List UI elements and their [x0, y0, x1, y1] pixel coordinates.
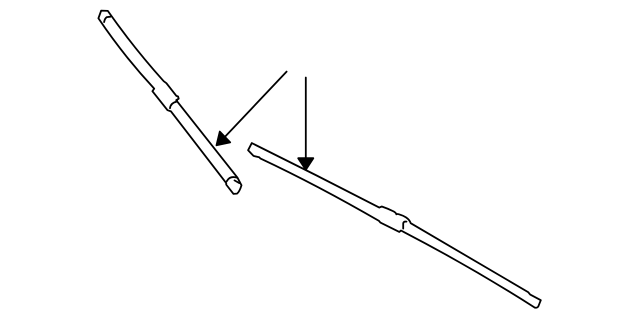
arrow 2 (vertical) line [305, 78, 307, 159]
blade 1 connector arc [170, 100, 177, 108]
arrow 2 head [298, 158, 313, 170]
blade 1 bottom cap arc [227, 177, 237, 181]
blade 2 connector mark [403, 222, 406, 229]
wiper blade 2 (right) outline [248, 143, 541, 308]
wiper blade 1 (left) outline [98, 11, 241, 194]
arrow 1 (diagonal) line [225, 72, 287, 137]
blade 1 top end cap mark [104, 17, 110, 22]
arrow 1 head [217, 132, 231, 146]
blade 1 bottom cap line [235, 180, 240, 183]
